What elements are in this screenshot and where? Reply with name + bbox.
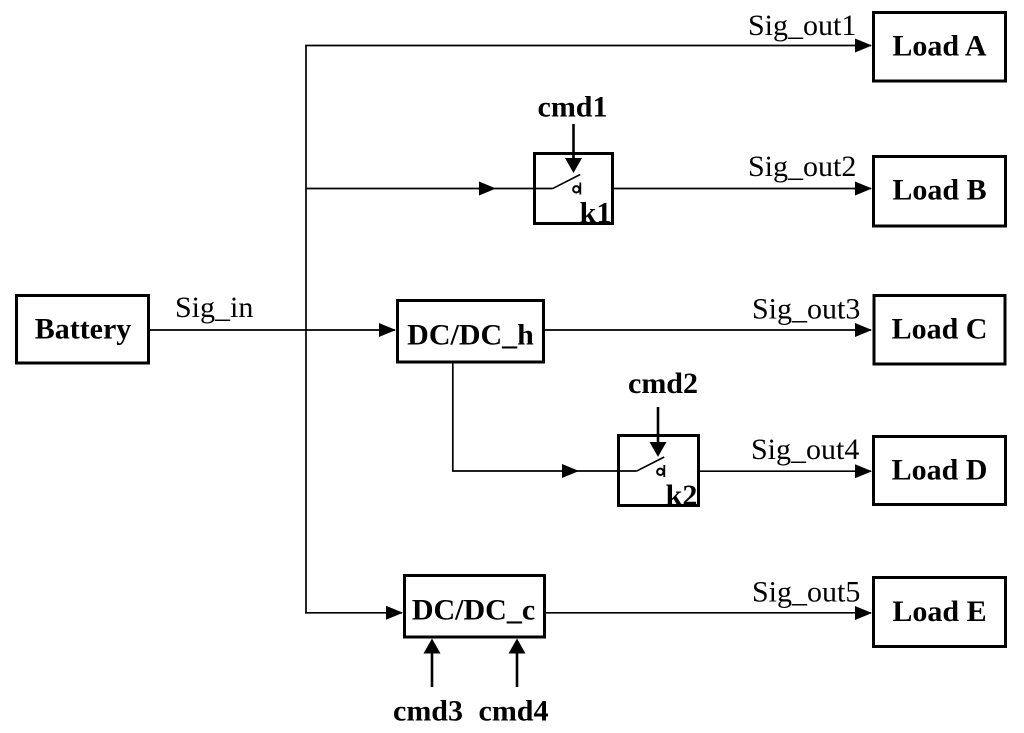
wire row B: switch k1 to Load B (581, 188, 872, 190)
wire row A: bus to Load A (305, 45, 871, 47)
svg-text:Load B: Load B (892, 174, 986, 207)
load D block (874, 437, 1006, 505)
converter DC/DC_h block (398, 301, 544, 363)
wire bus bottom to DC/DC_c (305, 612, 402, 614)
svg-text:Sig_in: Sig_in (175, 291, 253, 324)
arrow mid row D (562, 464, 579, 478)
load C block (874, 296, 1005, 365)
control arrow cmd4 head (509, 639, 526, 654)
switch k2 contact circle (657, 469, 663, 475)
wire Sig_in: Battery to bus to DC/DC_h (150, 329, 395, 331)
switch k2 box (619, 436, 699, 506)
svg-text:Sig_out3: Sig_out3 (752, 293, 860, 326)
svg-text:DC/DC_h: DC/DC_h (407, 319, 534, 352)
control arrow cmd4 stem (516, 652, 519, 687)
svg-text:Load C: Load C (892, 312, 988, 345)
svg-text:Sig_out4: Sig_out4 (751, 433, 859, 466)
svg-text:Sig_out5: Sig_out5 (752, 576, 860, 609)
svg-text:cmd2: cmd2 (628, 367, 698, 400)
converter DC/DC_c block (405, 576, 545, 638)
svg-text:Sig_out1: Sig_out1 (748, 9, 856, 42)
switch k2 wire-in segment (617, 470, 636, 472)
wire row C: DC/DC_h to Load C (545, 329, 871, 331)
arrow into DC/DC_h (379, 323, 396, 337)
svg-text:Load D: Load D (892, 454, 988, 487)
load A block (874, 13, 1006, 82)
arrow into Load C (855, 323, 872, 337)
arrow into Load A (855, 39, 872, 53)
switch k1 wire-in segment (533, 188, 552, 190)
control arrow cmd1 stem (572, 124, 575, 160)
arrow into DC/DC_c (386, 606, 403, 620)
load E block (874, 578, 1006, 647)
arrow into Load E (855, 606, 872, 620)
wire row D: switch k2 to Load D (665, 470, 872, 472)
wire DC/DC_h down to row D (453, 364, 617, 472)
arrow into Load D (855, 464, 872, 478)
load B block (874, 157, 1006, 227)
control arrow cmd2 stem (657, 407, 660, 443)
battery block (17, 296, 149, 364)
svg-text:DC/DC_c: DC/DC_c (412, 594, 535, 627)
svg-text:k2: k2 (666, 479, 698, 512)
control arrow cmd1 head (565, 158, 582, 173)
switch k1 box (535, 154, 613, 224)
wire row E: DC/DC_c to Load E (546, 612, 871, 614)
wire bus vertical from Battery node (305, 46, 307, 614)
switch k2 contact bar (663, 465, 665, 477)
svg-text:cmd1: cmd1 (538, 91, 608, 124)
arrow into Load B (855, 182, 872, 196)
svg-text:Sig_out2: Sig_out2 (748, 150, 856, 183)
switch k2 blade (636, 457, 664, 471)
svg-text:cmd3: cmd3 (393, 695, 463, 728)
arrow mid row B (479, 182, 496, 196)
control arrow cmd3 head (424, 639, 441, 654)
control arrow cmd2 head (650, 442, 667, 457)
svg-text:k1: k1 (580, 197, 612, 230)
switch k1 blade (552, 175, 580, 189)
switch k1 contact bar (579, 183, 581, 195)
svg-text:Load E: Load E (892, 595, 986, 628)
wire row B: bus to switch k1 (306, 188, 533, 190)
control arrow cmd3 stem (431, 652, 434, 687)
svg-text:Battery: Battery (35, 313, 132, 346)
switch k1 contact circle (573, 186, 579, 192)
svg-text:Load A: Load A (892, 29, 987, 62)
svg-text:cmd4: cmd4 (479, 695, 549, 728)
